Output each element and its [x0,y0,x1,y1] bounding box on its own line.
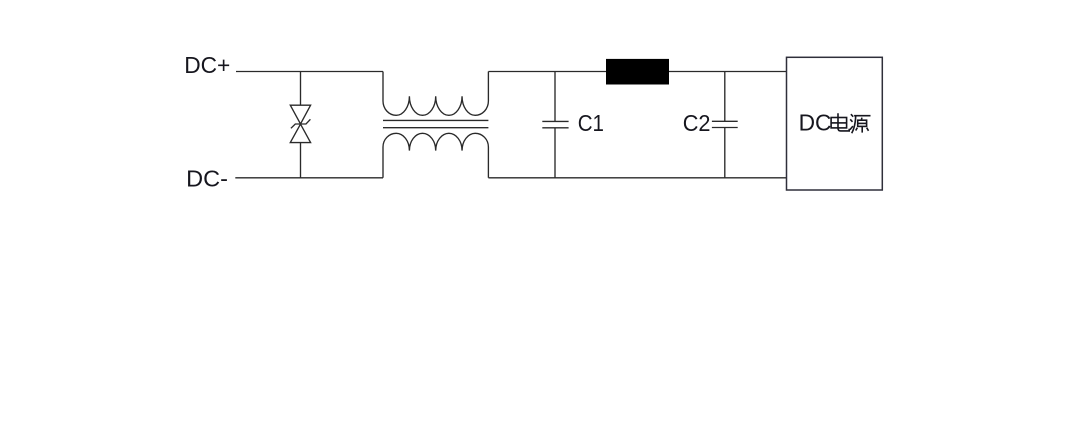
svg-text:C2: C2 [683,110,711,136]
svg-text:DC-: DC- [186,166,228,192]
svg-text:C1: C1 [578,110,604,136]
svg-text:DC: DC [799,109,832,135]
svg-text:DC+: DC+ [184,52,230,78]
